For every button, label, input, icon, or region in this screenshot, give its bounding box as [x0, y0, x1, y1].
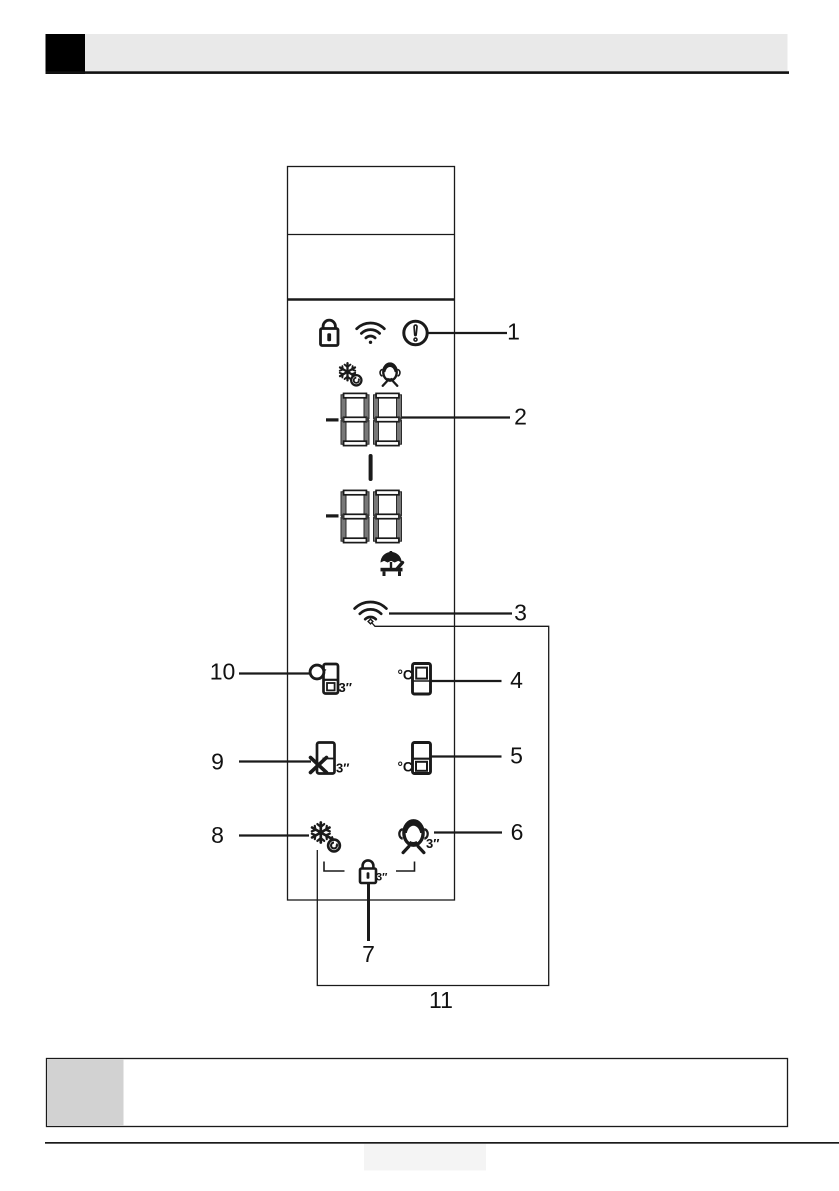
button 6: quick cool head + 3" — [399, 821, 439, 853]
svg-text:3″: 3″ — [339, 680, 352, 695]
svg-text:10: 10 — [210, 659, 236, 685]
svg-text:°C: °C — [398, 668, 413, 683]
svg-text:°C: °C — [398, 760, 413, 775]
svg-text:3″: 3″ — [376, 872, 388, 884]
key lock bracket right — [396, 862, 415, 872]
callout line 5 — [431, 755, 502, 757]
button 7: key lock (lock + 3") — [360, 860, 388, 883]
button 9: door open alarm off (fridge + X + 3") — [311, 743, 350, 776]
minus sign display 1 — [326, 418, 339, 421]
header title bar — [85, 34, 788, 72]
fridge 7-segment display — [341, 490, 402, 542]
freezer 7-segment display — [341, 393, 402, 445]
wifi button icon — [355, 602, 387, 624]
indicator: quick cool head — [380, 364, 400, 386]
indicator: vacation icon — [381, 551, 403, 576]
callout path 11 (wifi dot to bottom box to quick-freeze button) — [317, 623, 548, 986]
header chapter square — [46, 34, 86, 74]
callout line 2 — [402, 416, 511, 418]
svg-text:5: 5 — [510, 743, 523, 769]
callout line 4 — [431, 680, 502, 682]
svg-text:3″: 3″ — [426, 836, 439, 851]
svg-text:8: 8 — [211, 822, 224, 848]
indicator: quick freeze snowflake + timer — [340, 363, 362, 385]
indicator: wifi icon — [357, 323, 385, 344]
callout line 8 — [239, 834, 309, 836]
svg-text:1: 1 — [507, 319, 520, 345]
svg-text:6: 6 — [511, 819, 524, 845]
button 8: quick freeze (snowflake + timer) — [312, 823, 340, 852]
button 10: quick cool (circle arrow + fridge + 3") — [310, 664, 352, 695]
callout line 10 — [239, 672, 309, 674]
panel divider thick — [288, 298, 455, 300]
svg-text:3″: 3″ — [336, 761, 349, 776]
callout line 7 — [367, 884, 370, 942]
svg-text:9: 9 — [211, 749, 224, 775]
control panel outline — [288, 167, 455, 901]
callout line 1 — [429, 332, 508, 334]
svg-text:2: 2 — [514, 404, 527, 430]
indicator: key lock icon — [321, 320, 339, 345]
display separator bar — [369, 454, 373, 481]
footer page number placeholder — [364, 1144, 486, 1171]
svg-text:3: 3 — [514, 600, 527, 626]
note box — [47, 1059, 788, 1127]
svg-text:11: 11 — [429, 987, 453, 1013]
callout line 6 — [434, 831, 502, 833]
footer rule — [45, 1142, 839, 1144]
header underline — [46, 71, 790, 74]
button 4: fridge temperature set — [398, 664, 431, 695]
svg-text:4: 4 — [510, 667, 523, 693]
key lock bracket left — [324, 862, 345, 872]
indicator: alarm icon U1 — [404, 321, 427, 344]
callout line 9 — [239, 760, 311, 762]
button 5: freezer temperature set — [398, 743, 431, 775]
svg-text:7: 7 — [362, 941, 375, 967]
minus sign display 2 — [326, 514, 339, 517]
note box gray square — [47, 1059, 124, 1126]
panel divider thin — [288, 234, 455, 236]
callout line 3 — [389, 612, 512, 614]
